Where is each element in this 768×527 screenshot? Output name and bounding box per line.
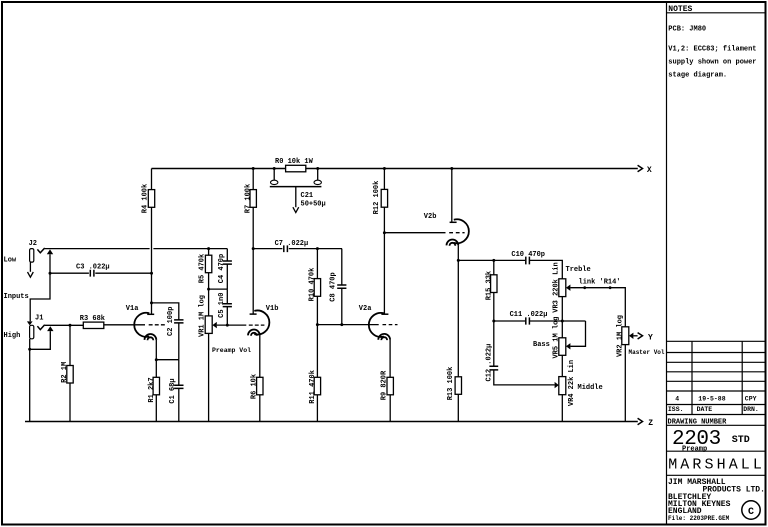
notes box <box>667 5 766 80</box>
triode V1b <box>248 305 278 377</box>
resistor R15 33k <box>485 260 497 366</box>
svg-text:Inputs: Inputs <box>4 293 29 301</box>
title block: company address <box>668 478 765 522</box>
potentiometer VR3 220k Lin (Treble) <box>553 262 591 338</box>
svg-text:VR3 220k Lin: VR3 220k Lin <box>553 262 561 312</box>
svg-text:stage diagram.: stage diagram. <box>668 72 727 80</box>
svg-text:C5 1n0: C5 1n0 <box>218 293 226 318</box>
svg-text:R1 2k7: R1 2k7 <box>148 377 156 402</box>
resistor R2 1M <box>61 325 73 421</box>
svg-text:C4 470p: C4 470p <box>218 254 226 283</box>
capacitor C21 50+50u <box>270 169 326 213</box>
wire: J1 sleeve down to Z rail <box>29 339 31 422</box>
svg-text:C2 100p: C2 100p <box>167 307 175 336</box>
svg-text:C: C <box>748 507 754 518</box>
wire: HT X rail <box>152 168 638 170</box>
svg-text:R11 470k: R11 470k <box>309 370 317 404</box>
svg-text:Low: Low <box>4 256 17 264</box>
capacitor C1 68u <box>169 360 184 422</box>
wire: R3 to V1a grid <box>104 324 145 326</box>
resistor R10 470k <box>309 247 321 377</box>
resistor R4 100k <box>142 169 155 315</box>
svg-text:R4 100k: R4 100k <box>142 184 150 213</box>
node Y (VR2 wiper output arrow) <box>633 333 653 343</box>
resistor R9 820R <box>380 370 393 422</box>
capacitor C4 470p <box>218 249 232 290</box>
svg-text:Middle: Middle <box>578 384 603 392</box>
resistor R7 100k <box>245 169 257 315</box>
svg-text:R5 470k: R5 470k <box>198 254 206 283</box>
wire: V2b anode from X rail <box>451 169 453 223</box>
svg-text:X: X <box>647 166 652 175</box>
svg-text:Preamp: Preamp <box>682 445 707 453</box>
svg-text:DRN.: DRN. <box>743 406 759 413</box>
svg-text:C12 .022µ: C12 .022µ <box>485 344 493 382</box>
svg-text:R3 68k: R3 68k <box>80 315 105 323</box>
jack J1 (High input) <box>4 315 45 340</box>
potentiometer VR2 1M log (Master Vol) <box>616 315 665 422</box>
svg-text:CPY: CPY <box>745 396 757 403</box>
title block: revision table <box>667 341 766 414</box>
svg-text:V2a: V2a <box>359 305 372 313</box>
capacitor C10 470p <box>511 251 545 264</box>
svg-text:C8 470p: C8 470p <box>330 272 338 301</box>
capacitor C5 1n0 <box>218 289 232 327</box>
svg-text:J1: J1 <box>35 315 43 323</box>
svg-text:MARSHALL: MARSHALL <box>668 456 765 473</box>
svg-text:R10 470k: R10 470k <box>309 268 317 302</box>
copyright symbol <box>742 501 760 519</box>
resistor R12 100k <box>373 169 388 315</box>
junction dots on X rail <box>252 167 454 170</box>
svg-text:High: High <box>4 332 21 340</box>
capacitor C12 .022u <box>485 344 554 385</box>
svg-text:R13 100k: R13 100k <box>447 367 455 401</box>
resistor R11 470k <box>309 370 321 421</box>
triode V2b (cathode follower) <box>424 213 469 260</box>
resistor R1 2k7 <box>148 360 160 422</box>
wire: J1 tip to R3 <box>45 324 84 327</box>
svg-text:C7 .022µ: C7 .022µ <box>275 240 309 248</box>
svg-text:R7 100k: R7 100k <box>245 184 253 213</box>
svg-text:ISS.: ISS. <box>668 406 684 413</box>
svg-text:V1,2: ECC83; filament: V1,2: ECC83; filament <box>668 46 756 54</box>
svg-text:Preamp Vol: Preamp Vol <box>212 347 251 354</box>
triode V2a <box>359 305 398 377</box>
svg-text:R15 33k: R15 33k <box>485 271 493 300</box>
svg-text:R2 1M: R2 1M <box>61 362 69 383</box>
svg-text:supply shown on power: supply shown on power <box>668 59 756 67</box>
wire: J2 shorting contact down to J1 tip <box>30 254 51 321</box>
svg-text:C21: C21 <box>301 192 314 200</box>
svg-text:C3 .022µ: C3 .022µ <box>76 264 110 272</box>
svg-text:50+50µ: 50+50µ <box>301 201 326 209</box>
svg-text:VR2 1M log: VR2 1M log <box>616 315 624 357</box>
wire: J1 shorting contact to sleeve/ground line <box>28 331 50 351</box>
wire: R5/C4 bottom junction <box>207 288 227 291</box>
svg-text:C10 470p: C10 470p <box>511 251 545 259</box>
resistor R13 100k <box>447 260 462 421</box>
svg-text:VR1 1M log: VR1 1M log <box>198 295 206 337</box>
capacitor C3 .022u <box>50 264 153 277</box>
resistor R6 10k <box>251 374 263 422</box>
wire: R10/R11 node to V2a grid <box>316 323 379 326</box>
svg-text:DATE: DATE <box>697 406 713 413</box>
jack J2 (Low input) <box>4 240 45 277</box>
svg-text:link 'R14': link 'R14' <box>579 278 621 286</box>
wire: link 'R14' (VR3 wiper to VR2 top) <box>570 278 625 326</box>
svg-text:R12 100k: R12 100k <box>373 181 381 215</box>
title block: MARSHALL logo <box>667 456 766 475</box>
svg-text:Bass: Bass <box>533 341 550 349</box>
wire: V2a anode to V2b grid <box>383 231 465 234</box>
potentiometer VR1 1M log (Preamp Vol) <box>198 289 251 421</box>
node X (output arrow) <box>638 165 652 175</box>
svg-text:File: 2203PRE.GEM: File: 2203PRE.GEM <box>668 515 730 522</box>
svg-text:VR4 22k Lin: VR4 22k Lin <box>568 360 576 406</box>
svg-text:Y: Y <box>648 333 653 342</box>
resistor R0 10k 1W <box>275 158 314 172</box>
capacitor C2 100p <box>150 301 184 359</box>
svg-text:C11 .022µ: C11 .022µ <box>510 311 548 319</box>
title block: column separator <box>666 2 668 525</box>
wire: V2b cathode output <box>457 259 563 279</box>
triode V1a <box>126 305 166 360</box>
svg-text:19-5-88: 19-5-88 <box>698 396 725 403</box>
title block: drawing number <box>667 418 766 453</box>
svg-text:VR5 1M log: VR5 1M log <box>553 316 561 358</box>
node Z (output arrow) <box>638 418 654 428</box>
svg-text:V2b: V2b <box>424 213 437 221</box>
svg-text:V1b: V1b <box>266 305 279 313</box>
capacitor C8 470p <box>330 249 347 327</box>
potentiometer VR5 1M log (Bass) <box>533 316 570 376</box>
svg-text:R6 10k: R6 10k <box>251 374 259 399</box>
wire: earth Z rail <box>25 421 638 423</box>
wire: VR1 wiper to V1b grid <box>217 324 247 326</box>
capacitor C11 .022u <box>492 311 585 324</box>
potentiometer VR4 22k Lin (Middle) <box>555 360 603 422</box>
svg-text:Master Vol: Master Vol <box>629 349 665 356</box>
svg-text:C1 68µ: C1 68µ <box>169 378 177 403</box>
J1 shorting contact arrow <box>47 326 53 331</box>
svg-text:Treble: Treble <box>566 266 591 274</box>
wire: V1a cathode junction <box>155 358 179 361</box>
wire: VR5 wiper loop to VR3 bottom node <box>570 321 585 346</box>
svg-text:4: 4 <box>675 396 679 403</box>
svg-text:PCB: JM80: PCB: JM80 <box>668 26 706 34</box>
svg-text:Z: Z <box>648 419 653 428</box>
svg-text:R0 10k 1W: R0 10k 1W <box>275 158 314 166</box>
wire: J2 tip to R5/C4 top (breaks over anode line) <box>45 247 228 250</box>
capacitor C7 .022u <box>252 240 342 252</box>
resistor R5 470k <box>198 249 211 290</box>
J2 shorting contact arrow <box>47 249 53 254</box>
svg-text:J2: J2 <box>29 240 37 248</box>
resistor R3 68k <box>80 315 105 328</box>
svg-text:PRODUCTS LTD.: PRODUCTS LTD. <box>703 486 765 495</box>
svg-text:V1a: V1a <box>126 305 139 313</box>
label Inputs <box>4 293 29 301</box>
svg-text:STD: STD <box>732 435 750 446</box>
svg-text:R9 820R: R9 820R <box>380 370 388 400</box>
